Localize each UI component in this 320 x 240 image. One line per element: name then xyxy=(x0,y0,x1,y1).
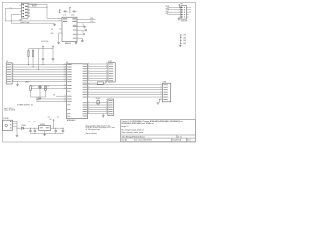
connector JP1 ISP header body xyxy=(181,6,187,20)
ground at tie bottom xyxy=(179,45,182,46)
ground tap at J1 xyxy=(16,81,19,84)
wire SCK to JP1 xyxy=(167,11,181,13)
svg-text:MISO: MISO xyxy=(166,8,169,10)
VCC at JP1 xyxy=(179,4,181,7)
svg-text:C7 1u: C7 1u xyxy=(63,14,67,16)
connector J3 body xyxy=(161,83,171,102)
IC1 pin name rows xyxy=(67,64,87,117)
ground at P5 xyxy=(16,135,19,136)
capacitor C7 above U1 xyxy=(63,10,68,12)
svg-text:1N4004: 1N4004 xyxy=(21,125,26,127)
wire bus J1 to IC1 port xyxy=(12,65,66,82)
wire XTAL2 xyxy=(31,87,67,89)
capacitor C3 at U1 pin V+ xyxy=(77,33,84,35)
wire output rail xyxy=(51,127,65,129)
op-amp U1 MAX232 body xyxy=(62,17,77,41)
wire PD1 xyxy=(36,98,66,100)
svg-text:100n: 100n xyxy=(48,117,51,119)
capacitor C8 above U1 xyxy=(72,10,77,12)
VCC at AREF xyxy=(105,81,106,83)
svg-text:100u: 100u xyxy=(33,121,36,123)
VCC symbol at U1 top left xyxy=(59,9,61,12)
connector J2 body xyxy=(106,63,115,82)
title block frame xyxy=(121,119,196,142)
pin stubs P1 right xyxy=(28,3,30,16)
capacitor C2 at U1 pin C2+ xyxy=(77,29,87,31)
resistor R2 xyxy=(32,49,33,68)
ground at JP1 xyxy=(179,17,181,19)
pin stubs P1 left xyxy=(20,5,22,14)
capacitor C1 at U1 pin C1+ xyxy=(77,26,86,28)
svg-text:C8 1u: C8 1u xyxy=(71,14,75,16)
ground at U1 pin15 xyxy=(57,43,60,44)
ground at crystal xyxy=(39,96,41,99)
title block kicad divider xyxy=(171,138,173,142)
wire AREF xyxy=(88,82,98,84)
wire P5 pin2 xyxy=(12,123,17,125)
capacitor C5 xyxy=(42,49,44,65)
wire GND tie vertical net xyxy=(180,34,182,44)
svg-text:ATMEGA8(I), ATMEGA8(L) with 16: ATMEGA8(I), ATMEGA8(L) with 16MHz osc xyxy=(122,122,155,125)
capacitor C4 at U1 pin V- xyxy=(77,38,84,42)
svg-text:P5 PWR: P5 PWR xyxy=(3,118,8,120)
svg-text:C11: C11 xyxy=(28,121,31,123)
VCC symbol 2 above U1 xyxy=(69,7,70,13)
svg-text:R2O: R2O xyxy=(51,33,54,35)
svg-text:RXD: RXD xyxy=(37,100,40,102)
wire XTAL1 xyxy=(31,85,67,87)
svg-text:10u: 10u xyxy=(57,117,59,119)
capacitor C6 xyxy=(52,49,54,63)
svg-text:GND: GND xyxy=(183,40,186,42)
VCC symbol above C5 xyxy=(42,46,43,49)
wire PD2 xyxy=(36,100,66,102)
svg-text:TXD: TXD xyxy=(37,97,40,99)
wire P5 pin3 xyxy=(12,125,17,127)
connector J4 body xyxy=(106,99,113,116)
ground at regulator xyxy=(43,134,46,135)
junction dot U1 pin T1OUT xyxy=(58,20,61,23)
svg-text:C5 C6 100n: C5 C6 100n xyxy=(41,41,49,43)
sheet border frame xyxy=(3,2,196,142)
diode D1 xyxy=(21,127,38,130)
wire P5 pin1 xyxy=(12,120,17,122)
svg-text:C13: C13 xyxy=(48,115,51,117)
connector P5 DC jack body xyxy=(3,120,13,130)
ground at DB9 return rail xyxy=(53,24,56,25)
wire P5 down to ground xyxy=(16,121,18,135)
wire VCC rail above resistors xyxy=(29,48,54,50)
wire crystal ground rail xyxy=(31,96,46,98)
wire AREF to VCC xyxy=(104,82,107,84)
IC1 left pin stubs xyxy=(63,63,66,101)
svg-text:all 100n bypass caps.: all 100n bypass caps. xyxy=(86,129,101,131)
svg-text:RX232: RX232 xyxy=(32,6,37,8)
svg-text:Cable 9 Cond.: Cable 9 Cond. xyxy=(20,22,30,24)
wire MOSI to JP1 xyxy=(167,6,181,8)
connector P1 DB9 body xyxy=(22,3,29,18)
pin number marks JP1 right xyxy=(189,7,191,12)
svg-text:design 2.0: design 2.0 xyxy=(122,126,129,128)
svg-text:CON10 ISP: CON10 ISP xyxy=(181,20,188,22)
pin stub U1 R2OUT with ground xyxy=(59,33,63,42)
title block divider 2 xyxy=(121,137,196,139)
pin stubs JP1 right xyxy=(187,7,189,17)
wire RXD from P1 pin to U1 xyxy=(30,4,62,18)
pin stub U1 T2IN xyxy=(59,28,62,30)
wire U1 R1OUT to net label xyxy=(77,19,96,21)
resistor R3 on AREF xyxy=(97,82,103,84)
VCC symbol above C6 xyxy=(52,46,53,49)
ground under J4 xyxy=(102,113,105,115)
svg-text:C2: C2 xyxy=(84,28,86,30)
wire J3 ground pin xyxy=(159,99,162,103)
capacitor C10 at XTAL2 xyxy=(45,86,47,97)
svg-text:JP1: JP1 xyxy=(180,4,183,6)
capacitor C9 at XTAL1 xyxy=(30,85,32,97)
svg-text:C14: C14 xyxy=(57,115,60,117)
pin numbers J1 xyxy=(12,63,15,81)
svg-text:C1: C1 xyxy=(82,24,84,26)
wire regulator ground pin xyxy=(44,131,46,134)
svg-text:22p: 22p xyxy=(32,86,34,88)
capacitor C11 input xyxy=(29,128,31,134)
wire MISO to JP1 xyxy=(167,9,181,11)
wire input rail xyxy=(17,127,22,130)
svg-text:RST: RST xyxy=(166,13,169,15)
title block divider 1 xyxy=(121,134,196,136)
wire bus IC1 to J3 xyxy=(88,85,163,97)
title block rev divider xyxy=(185,138,187,142)
capacitor C12 input xyxy=(34,128,36,134)
capacitor C14 output xyxy=(62,128,64,134)
wire PD0 with net label xyxy=(56,95,66,97)
svg-text:SCK: SCK xyxy=(166,11,169,13)
wire bus IC1 to J4 xyxy=(88,103,108,114)
transistor U2 regulator body xyxy=(39,126,51,131)
VCC output symbol xyxy=(53,120,54,129)
resistor R1 xyxy=(28,49,29,65)
svg-text:GND: GND xyxy=(183,35,186,37)
wire power ground rail xyxy=(31,133,64,135)
wire TXD rail from P1 to U1 xyxy=(5,8,62,21)
ground under U1 xyxy=(75,42,77,43)
svg-text:GND: GND xyxy=(183,37,186,39)
svg-text:GND: GND xyxy=(183,43,186,45)
connector J1 body xyxy=(6,63,12,84)
wire bus IC1 to J2 xyxy=(88,64,108,81)
wire GND rail from P1 xyxy=(11,15,54,25)
resistor R4 vertical near J4 xyxy=(97,99,99,105)
svg-text:C3: C3 xyxy=(82,32,84,34)
svg-text:Rev: 2: Rev: 2 xyxy=(187,140,192,142)
wire from P1 pin1 top xyxy=(30,3,47,5)
wire RST to JP1 xyxy=(167,14,181,16)
op-amp IC1 MCU body xyxy=(66,64,87,119)
svg-text:16MHz: 16MHz xyxy=(25,81,30,83)
wire U1 T1IN to net label xyxy=(77,22,96,24)
title block id cell divider xyxy=(176,135,178,138)
crystal X1 xyxy=(39,85,42,97)
wire reset tap xyxy=(37,49,40,70)
junction dot U1 pin R1IN xyxy=(58,17,61,20)
IC1 right pin numbers xyxy=(87,63,90,113)
svg-text:22p: 22p xyxy=(47,86,49,88)
svg-text:R4 10k: R4 10k xyxy=(96,98,100,100)
svg-text:RX: RX xyxy=(53,95,55,97)
capacitor C13 output xyxy=(55,128,57,134)
ground at J3 xyxy=(157,103,160,104)
svg-text:POWER SUPPLY 5V: POWER SUPPLY 5V xyxy=(17,104,34,106)
